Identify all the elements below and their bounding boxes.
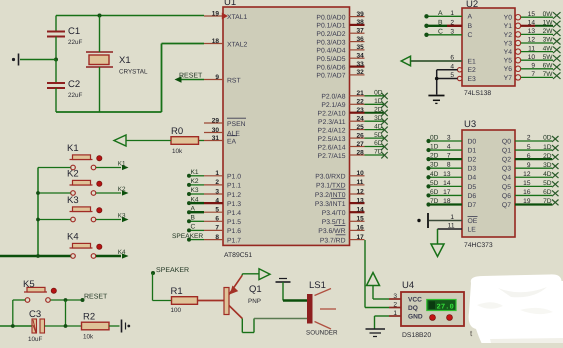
U4 pin DQ (2): [389, 302, 418, 313]
svg-text:P3.7/RD: P3.7/RD: [320, 237, 346, 244]
svg-text:2: 2: [527, 135, 531, 142]
svg-text:11: 11: [528, 45, 535, 52]
svg-text:35: 35: [357, 44, 365, 51]
svg-text:LE: LE: [468, 227, 477, 234]
wire K1 to net terminal: [96, 160, 129, 170]
U3 pin D7 (18) with net 7D: [426, 198, 476, 209]
U3 pin Q1 (5) with net 1D out: [502, 144, 559, 155]
wire left key bus: [37, 168, 39, 257]
resistor R0: [171, 126, 204, 155]
svg-text:C2: C2: [68, 79, 80, 90]
ground arrow terminal below U3: [431, 244, 444, 257]
node C at P1.6: [187, 224, 204, 233]
svg-text:14: 14: [443, 180, 451, 187]
wire bus to K1: [38, 167, 71, 169]
svg-text:P2.1/A9: P2.1/A9: [321, 102, 345, 109]
wire net 6D from P2.6: [365, 140, 388, 150]
U1 pin P1.2 (3): [204, 188, 241, 199]
svg-text:1: 1: [393, 310, 397, 317]
capacitor C2: [47, 79, 83, 99]
U3 pin D2 (7) with net 2D: [426, 153, 476, 164]
svg-text:P3.1/TXD: P3.1/TXD: [316, 183, 346, 190]
svg-text:12: 12: [357, 188, 365, 195]
svg-text:Y1: Y1: [504, 23, 513, 30]
svg-text:18: 18: [212, 38, 220, 45]
svg-text:27: 27: [357, 141, 365, 148]
ground above LS1: [276, 279, 291, 301]
U3 pin LE (11): [438, 223, 477, 234]
svg-text:P1.3: P1.3: [227, 201, 241, 208]
svg-text:A: A: [438, 10, 443, 17]
svg-text:Y0: Y0: [504, 15, 513, 22]
svg-text:1W: 1W: [543, 20, 554, 27]
svg-text:1: 1: [215, 170, 219, 177]
U3 pin Q7 (19) with net 7D out: [502, 198, 559, 209]
svg-text:15: 15: [528, 11, 536, 18]
svg-text:P1.5: P1.5: [227, 219, 241, 226]
wire XTAL2 riser: [162, 44, 205, 113]
node B at U2 input: [424, 20, 472, 31]
junction K5/R2 column: [64, 298, 68, 326]
U1 pin XTAL2 (18): [204, 38, 247, 49]
svg-text:22: 22: [357, 99, 365, 106]
svg-text:P0.2/AD2: P0.2/AD2: [316, 31, 345, 38]
decorative white blob (ignored): [469, 274, 563, 343]
U2 pin Y1 (14) with net 1W: [504, 20, 561, 31]
svg-text:A: A: [191, 205, 196, 212]
junction C3/R2/K5: [64, 324, 68, 328]
wire K3 to net terminal: [96, 212, 129, 222]
svg-text:1D: 1D: [430, 144, 439, 151]
U4 pin GND (1): [389, 310, 423, 321]
node SPEAKER (terminal above R1): [151, 267, 189, 275]
U3 pin D0 (3) with net 0D: [426, 135, 476, 146]
svg-text:6D: 6D: [543, 189, 552, 196]
node A at U2 input: [424, 10, 472, 21]
svg-text:2D: 2D: [543, 153, 552, 160]
wire E2/E3 to ground: [435, 70, 439, 95]
wire C1 to mid junction: [55, 37, 57, 60]
svg-text:Y7: Y7: [504, 75, 513, 82]
svg-text:3: 3: [393, 293, 397, 300]
wire ground to LS1 top: [283, 299, 308, 301]
svg-text:U4: U4: [402, 280, 414, 291]
svg-text:U2: U2: [466, 0, 478, 10]
svg-text:25: 25: [357, 124, 365, 131]
svg-text:13: 13: [528, 28, 536, 35]
svg-text:P3.5/T1: P3.5/T1: [322, 219, 346, 226]
wire bottom node: [56, 111, 162, 113]
svg-text:38: 38: [357, 19, 365, 26]
svg-text:28: 28: [357, 149, 365, 156]
svg-text:5D: 5D: [430, 180, 439, 187]
svg-text:24: 24: [357, 116, 365, 123]
U2 pin Y3 (12) with net 3W: [504, 37, 561, 48]
svg-text:4: 4: [447, 144, 451, 151]
svg-text:Q1: Q1: [502, 147, 511, 154]
svg-text:C: C: [191, 224, 196, 231]
svg-text:Q3: Q3: [502, 166, 511, 173]
svg-text:Q7: Q7: [502, 202, 511, 209]
U1 pin P3.5/T1 (15): [322, 216, 365, 227]
U1 pin EA (31): [204, 135, 237, 146]
svg-text:P2.0/A8: P2.0/A8: [321, 94, 345, 101]
svg-text:16: 16: [357, 225, 365, 232]
svg-text:D5: D5: [468, 184, 477, 191]
U1 pin P0.7/AD7 (32): [316, 69, 364, 80]
svg-text:7: 7: [447, 153, 451, 160]
svg-text:D4: D4: [468, 175, 477, 182]
svg-text:9: 9: [215, 74, 219, 81]
svg-text:Y5: Y5: [504, 58, 513, 65]
svg-text:SOUNDER: SOUNDER: [306, 330, 338, 337]
svg-text:22uF: 22uF: [68, 92, 83, 99]
svg-text:PSEN: PSEN: [227, 121, 246, 128]
wire EA to left arrow terminal: [126, 140, 171, 142]
svg-text:P1.0: P1.0: [227, 174, 241, 181]
op-amp U1 body (AT89C51 microcontroller): [223, 0, 350, 259]
node A at P1.4: [187, 205, 204, 214]
svg-text:A: A: [468, 14, 473, 21]
svg-text:2: 2: [450, 20, 454, 27]
U2 pin Y7 (7) with net 7W: [504, 71, 561, 82]
svg-text:B: B: [468, 23, 473, 30]
U1 pin P2.6/A14 (27): [318, 141, 365, 152]
svg-text:E3: E3: [468, 76, 477, 83]
U3 pin D4 (13) with net 4D: [426, 171, 476, 182]
svg-text:12: 12: [528, 37, 536, 44]
svg-text:5D: 5D: [543, 180, 552, 187]
svg-text:RESET: RESET: [179, 72, 203, 79]
U1 pin P3.3/INT1 (13): [315, 197, 365, 208]
svg-text:3D: 3D: [543, 162, 552, 169]
svg-text:Q6: Q6: [502, 193, 511, 200]
svg-text:7: 7: [531, 71, 535, 78]
node K1 at P1.0: [187, 169, 204, 178]
svg-text:E1: E1: [468, 58, 477, 65]
U1 pin P0.3/AD3 (36): [316, 36, 364, 47]
svg-text:21: 21: [357, 90, 365, 97]
junction bus/K2: [36, 191, 40, 195]
svg-text:31: 31: [212, 135, 220, 142]
U1 pin P0.0/AD0 (39): [316, 11, 364, 22]
svg-text:P2.3/A11: P2.3/A11: [318, 119, 346, 126]
svg-text:4D: 4D: [543, 171, 552, 178]
U1 pin ALE (30): [204, 127, 240, 138]
svg-text:0D: 0D: [430, 135, 439, 142]
U1 pin P3.1/TXD (11): [316, 179, 364, 190]
wire K2 to net terminal: [96, 186, 129, 196]
svg-text:10uF: 10uF: [28, 336, 43, 343]
wire Q1 collector to LS1 (staircase): [242, 319, 307, 333]
svg-text:Y3: Y3: [504, 40, 513, 47]
svg-text:C3: C3: [29, 309, 41, 320]
wire Q1 emitter to arrow terminal: [242, 274, 259, 275]
U1 pin P0.6/AD6 (33): [316, 61, 364, 72]
svg-text:R1: R1: [171, 286, 183, 297]
svg-text:Y2: Y2: [504, 32, 513, 39]
svg-text:4: 4: [450, 63, 454, 70]
svg-text:LS1: LS1: [309, 280, 326, 291]
svg-text:P0.0/AD0: P0.0/AD0: [316, 14, 345, 21]
svg-text:17: 17: [357, 234, 365, 241]
svg-text:19: 19: [523, 198, 531, 205]
svg-text:C1: C1: [68, 26, 80, 37]
node K2 at P1.1: [187, 178, 204, 187]
svg-text:10k: 10k: [83, 334, 94, 341]
svg-text:5: 5: [215, 207, 219, 214]
svg-text:9: 9: [531, 63, 535, 70]
op-amp U2 body (74LS138 decoder): [462, 0, 515, 97]
svg-text:B: B: [191, 215, 196, 222]
svg-text:D3: D3: [468, 166, 477, 173]
U1 pin P3.4/T0 (14): [322, 207, 365, 218]
svg-text:U3: U3: [464, 119, 476, 130]
svg-text:P3.6/WR: P3.6/WR: [318, 228, 345, 235]
U1 pin RST (9): [204, 74, 241, 85]
svg-text:R0: R0: [171, 126, 183, 137]
svg-text:4W: 4W: [543, 45, 554, 52]
U4 LCD display 27.0: [427, 300, 456, 312]
U1 pin P2.7/A15 (28): [318, 149, 365, 160]
U1 pin P0.2/AD2 (37): [316, 28, 364, 39]
svg-text:4: 4: [215, 197, 219, 204]
svg-text:K3: K3: [67, 195, 79, 206]
svg-text:3: 3: [450, 29, 454, 36]
svg-text:P3.4/T0: P3.4/T0: [322, 210, 346, 217]
svg-text:74LS138: 74LS138: [464, 90, 491, 97]
wire VCC to power arrow: [373, 285, 389, 299]
wire net 0D from P2.0: [365, 90, 388, 100]
svg-text:RST: RST: [227, 77, 241, 84]
ground (right of R2): [122, 320, 131, 333]
svg-text:7D: 7D: [430, 198, 439, 205]
svg-text:7W: 7W: [543, 71, 554, 78]
svg-text:D1: D1: [468, 147, 477, 154]
U1 pin P0.1/AD1 (38): [316, 19, 364, 30]
svg-text:P3.2/INT0: P3.2/INT0: [315, 192, 346, 199]
U1 pin P3.7/RD (17): [320, 234, 365, 245]
junction bus/K3: [36, 218, 40, 222]
wire bus to K4: [0, 255, 71, 257]
wire crystal top lead: [99, 16, 101, 53]
U1 pin P1.4 (5): [204, 207, 241, 218]
wire LE to ground arrow: [437, 229, 439, 244]
svg-text:26: 26: [357, 132, 365, 139]
svg-text:Q5: Q5: [502, 184, 511, 191]
node SPEAKER at P1.7: [172, 233, 204, 242]
junction left column / C3 row: [11, 324, 15, 328]
junction dot crystal top node: [98, 14, 102, 18]
junction dot mid (C1/C2): [54, 58, 58, 62]
U2 pin E1 (6) with left arrow terminal: [401, 55, 476, 66]
svg-text:R2: R2: [83, 312, 95, 323]
svg-text:100: 100: [171, 307, 182, 314]
svg-text:10k: 10k: [172, 148, 183, 155]
node RESET (terminal at RST): [175, 72, 205, 82]
wire bus to K2: [38, 192, 71, 194]
U3 pin Q6 (16) with net 6D out: [502, 189, 559, 200]
ground arrow terminal at EA/R0: [114, 135, 126, 146]
svg-text:K2: K2: [67, 169, 79, 180]
switch K5 (reset button): [23, 279, 56, 302]
svg-text:Q1: Q1: [249, 284, 262, 295]
wire left edge to C3: [0, 325, 32, 327]
ground below U4: [366, 329, 386, 337]
svg-text:1: 1: [450, 10, 454, 17]
U1 pin P2.2/A10 (23): [318, 107, 365, 118]
svg-text:K2: K2: [191, 178, 199, 185]
svg-text:D0: D0: [468, 138, 477, 145]
U1 pin P1.3 (4): [204, 197, 241, 208]
svg-text:19: 19: [212, 10, 220, 17]
svg-text:U1: U1: [224, 0, 236, 8]
U3 pin D6 (17) with net 6D: [426, 189, 476, 200]
U3 pin D1 (4) with net 1D: [426, 144, 476, 155]
U2 pin E2 (4) with bubble: [437, 63, 476, 74]
switch K4 (key button): [67, 232, 102, 259]
svg-text:18: 18: [443, 198, 451, 205]
svg-text:P0.6/AD6: P0.6/AD6: [316, 64, 345, 71]
U3 pin D5 (14) with net 5D: [426, 180, 476, 191]
wire K4 to net terminal: [96, 249, 129, 259]
U1 pin P1.6 (7): [204, 225, 241, 236]
switch K1 (key button): [67, 143, 102, 170]
op-amp U3 body (74HC373 latch): [462, 119, 515, 249]
svg-text:K4: K4: [67, 232, 79, 243]
svg-text:P0.5/AD5: P0.5/AD5: [316, 56, 345, 63]
svg-text:SPEAKER: SPEAKER: [156, 267, 189, 274]
wire top node: C1 top to XTAL1: [56, 15, 204, 17]
node C at U2 input: [424, 29, 472, 40]
op-amp U4 body (DS18B20 sensor): [401, 280, 464, 339]
svg-text:22uF: 22uF: [68, 39, 83, 46]
svg-text:AT89C51: AT89C51: [224, 252, 252, 259]
wire net 1D from P2.1: [365, 98, 388, 108]
wire net 4D from P2.4: [365, 123, 388, 133]
svg-text:XTAL2: XTAL2: [227, 41, 247, 48]
U1 pin P0.5/AD5 (34): [316, 53, 364, 64]
svg-text:P2.6/A14: P2.6/A14: [318, 144, 346, 151]
capacitor C1: [47, 26, 83, 46]
U1 pin P2.5/A13 (26): [318, 132, 365, 143]
svg-text:OE: OE: [468, 218, 478, 225]
svg-text:P0.1/AD1: P0.1/AD1: [316, 23, 345, 30]
svg-text:DS18B20: DS18B20: [402, 332, 431, 339]
svg-text:D6: D6: [468, 193, 477, 200]
wire C1 column upper: [55, 16, 57, 32]
U2 pin Y5 (10) with net 5W: [504, 54, 561, 65]
svg-text:XTAL1: XTAL1: [227, 14, 247, 21]
wire crystal bottom lead: [99, 67, 101, 112]
U1 pin P2.0/A8 (21): [321, 90, 364, 101]
U1 pin P1.0 (1): [204, 170, 241, 181]
svg-text:14: 14: [528, 20, 536, 27]
U3 pin D3 (8) with net 3D: [426, 162, 476, 173]
svg-text:2W: 2W: [543, 28, 554, 35]
U1 pin P3.6/WR (16): [318, 225, 364, 236]
svg-text:P3.3/INT1: P3.3/INT1: [315, 201, 346, 208]
svg-text:29: 29: [212, 117, 220, 124]
svg-text:Y6: Y6: [504, 66, 513, 73]
svg-text:8: 8: [215, 234, 219, 241]
svg-text:P3.0/RXD: P3.0/RXD: [315, 174, 345, 181]
node B at P1.5: [187, 215, 204, 224]
svg-text:15: 15: [357, 216, 365, 223]
svg-text:2: 2: [215, 179, 219, 186]
svg-text:74HC373: 74HC373: [464, 242, 493, 249]
power arrow terminal (right) at Q1: [259, 269, 270, 280]
svg-text:39: 39: [357, 11, 365, 18]
svg-text:D2: D2: [468, 157, 477, 164]
svg-text:VCC: VCC: [408, 297, 422, 304]
svg-text:EA: EA: [227, 138, 237, 145]
U1 pin P3.0/RXD (10): [315, 170, 364, 181]
U1 pin P1.7 (8): [204, 234, 241, 245]
wire R2 to ground: [109, 325, 120, 327]
svg-text:10: 10: [528, 54, 536, 61]
U1 pin P2.3/A11 (24): [318, 116, 364, 127]
resistor R1: [171, 286, 198, 314]
wire DQ to P3.7 (net): [365, 240, 389, 308]
svg-text:37: 37: [357, 28, 365, 35]
U2 pin Y6 (9) with net 6W: [504, 63, 561, 74]
svg-text:0W: 0W: [543, 11, 554, 18]
svg-text:32: 32: [357, 69, 365, 76]
wire mid junction to ground: [20, 59, 56, 61]
wire net 5D from P2.5: [365, 132, 388, 142]
svg-text:C: C: [438, 29, 443, 36]
svg-text:5W: 5W: [543, 54, 554, 61]
svg-text:16: 16: [523, 189, 531, 196]
U4 buttons (red): [430, 315, 453, 321]
svg-text:K4: K4: [191, 196, 199, 203]
svg-text:10: 10: [357, 170, 365, 177]
svg-text:P0.3/AD3: P0.3/AD3: [316, 39, 345, 46]
svg-text:Q4: Q4: [502, 175, 511, 182]
svg-text:15: 15: [523, 180, 531, 187]
svg-text:3: 3: [215, 188, 219, 195]
svg-text:Y4: Y4: [504, 49, 513, 56]
svg-text:8: 8: [447, 162, 451, 169]
svg-text:B: B: [438, 20, 443, 27]
U1 pin P1.1 (2): [204, 179, 241, 190]
power arrow terminal above U4: [367, 273, 380, 286]
svg-text:K3: K3: [191, 187, 199, 194]
wire R1 to Q1 base: [198, 300, 225, 302]
svg-text:7D: 7D: [543, 198, 552, 205]
U2 pin Y0 (15) with net 0W: [504, 11, 561, 22]
svg-text:5: 5: [450, 72, 454, 79]
U3 pin Q4 (12) with net 4D out: [502, 171, 559, 182]
wire bus to K3: [38, 219, 71, 221]
svg-text:P2.4/A12: P2.4/A12: [318, 127, 346, 134]
U2 pin E3 (5) with bubble: [437, 72, 476, 83]
svg-text:9: 9: [527, 162, 531, 169]
ground (left of C1/C2): [12, 54, 19, 66]
svg-text:3W: 3W: [543, 37, 554, 44]
svg-text:7: 7: [215, 225, 219, 232]
svg-text:P0.7/AD7: P0.7/AD7: [316, 73, 345, 80]
wire net 3D from P2.3: [365, 115, 388, 125]
junction bus/K4: [36, 254, 40, 258]
capacitor C3 (electrolytic): [28, 309, 45, 343]
svg-text:ALE: ALE: [227, 130, 240, 137]
svg-text:36: 36: [357, 36, 365, 43]
svg-text:D7: D7: [468, 202, 477, 209]
svg-text:P1.6: P1.6: [227, 228, 241, 235]
svg-text:6: 6: [527, 153, 531, 160]
